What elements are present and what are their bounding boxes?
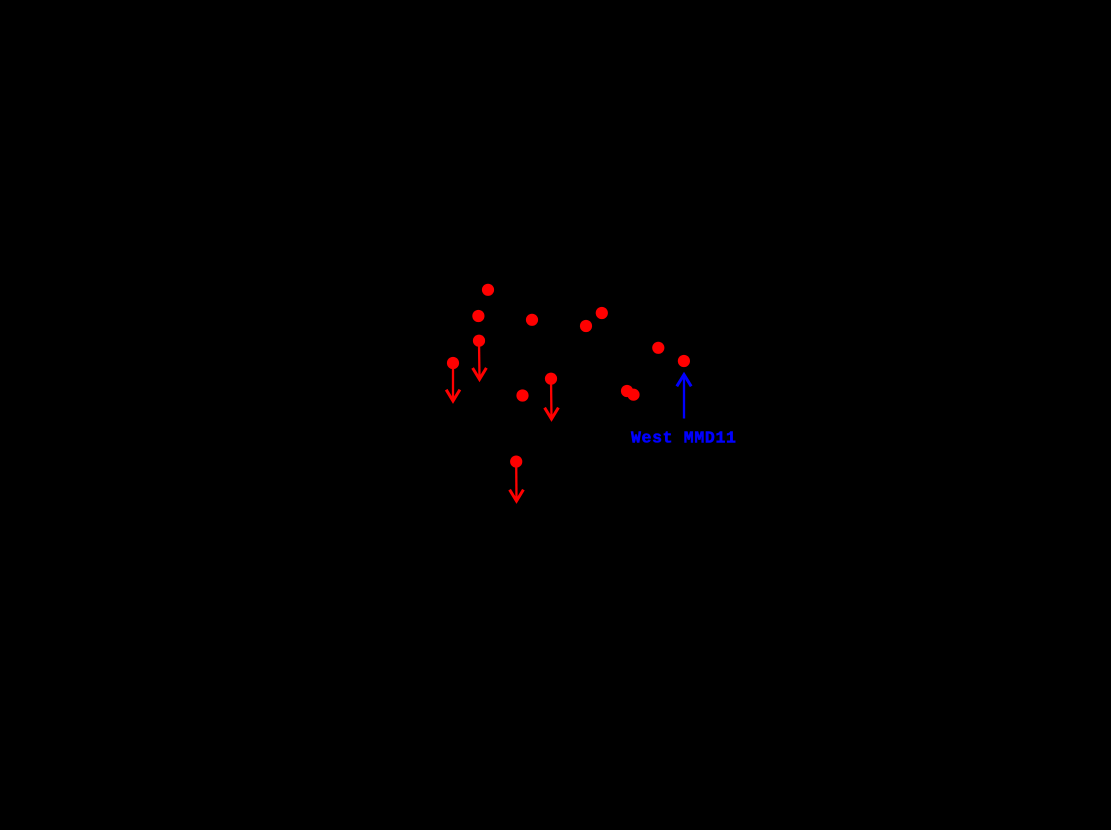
svg-text:West MMD11: West MMD11 — [631, 429, 737, 448]
